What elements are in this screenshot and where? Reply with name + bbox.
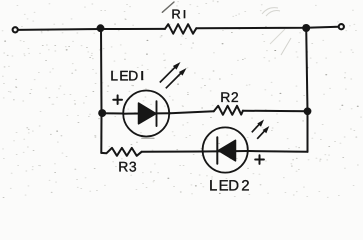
junction LED1 branch xyxy=(98,109,106,117)
LED2 light arrow 2 xyxy=(257,126,269,139)
wire LED1 left xyxy=(102,112,123,114)
faint scan diagonal left of junction B xyxy=(281,38,291,55)
resistor R2 xyxy=(214,106,243,115)
label LED1 xyxy=(110,67,142,83)
plus sign LED2 anode xyxy=(255,155,264,164)
terminal left xyxy=(13,27,18,32)
wire left vertical xyxy=(100,29,103,153)
junction B xyxy=(302,24,310,32)
label R1 xyxy=(171,6,184,21)
resistor R1 xyxy=(165,24,196,34)
faint scan scribble top right xyxy=(262,8,280,16)
wire R2 to right vertical xyxy=(243,110,308,113)
LED2 internal wire xyxy=(202,150,248,153)
svg-text:LED: LED xyxy=(110,67,138,83)
wire right vertical xyxy=(306,28,307,152)
svg-text:LED2: LED2 xyxy=(209,178,250,195)
junction A xyxy=(97,24,105,32)
svg-text:R2: R2 xyxy=(220,89,239,105)
LED1 xyxy=(123,91,169,137)
faint scan diagonal below top wire right xyxy=(270,29,285,44)
LED1 diode anode triangle xyxy=(139,103,157,124)
scan smudge under LED1 xyxy=(142,137,154,139)
LED1 light arrow 1 xyxy=(160,62,181,83)
wire top left xyxy=(18,29,165,30)
plus sign LED1 anode xyxy=(113,95,122,104)
terminal right xyxy=(339,24,344,29)
LED1 internal wire xyxy=(123,112,170,115)
wire LED2 right xyxy=(248,150,307,153)
LED2 xyxy=(203,127,248,172)
LED2 diode anode triangle xyxy=(218,140,235,161)
resistor R3 xyxy=(101,148,141,156)
stray scan mark near R1 xyxy=(162,2,174,12)
LED1 diode cathode bar xyxy=(156,101,158,126)
wire LED2 to R3 xyxy=(142,151,203,153)
LED2 diode cathode bar xyxy=(216,137,218,164)
LED1 light arrow 2 xyxy=(166,68,187,88)
LED2 light arrow 1 xyxy=(252,120,264,133)
junction R2 branch xyxy=(304,107,312,115)
wire LED1 to R2 xyxy=(170,111,214,113)
svg-text:R: R xyxy=(171,6,180,21)
svg-text:R3: R3 xyxy=(118,159,137,175)
wire top right xyxy=(196,27,338,29)
